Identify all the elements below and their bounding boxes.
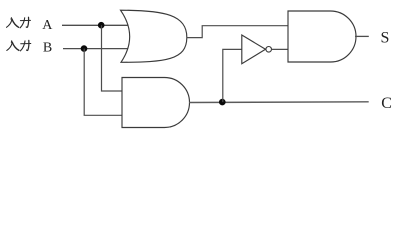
wire inverter output to AND gate U4 (272, 48, 289, 50)
wire OR output to AND gate U4 (stepped) (187, 26, 288, 38)
wire U2 output to C (189, 101, 369, 104)
junction node on wire A (98, 22, 105, 29)
AND gate U4 (top right) (288, 11, 356, 62)
junction node on wire B (81, 45, 88, 52)
wire A branch down to AND gate U2 top input (102, 25, 123, 91)
wire B (input B horizontal) (63, 48, 129, 50)
OR gate U1 (121, 10, 187, 62)
NOT gate U3 bubble (266, 47, 272, 53)
wire S output (355, 35, 369, 37)
wire B branch down to AND gate U2 bottom input (84, 49, 122, 116)
wire A (input A horizontal) (62, 24, 129, 26)
svg-text:A: A (42, 18, 53, 33)
junction node C branch (219, 99, 226, 106)
label 入力 B (input B) (7, 40, 31, 51)
AND gate U2 (bottom) (122, 78, 190, 128)
svg-text:C: C (381, 95, 392, 112)
svg-text:S: S (381, 30, 390, 47)
svg-text:B: B (43, 41, 52, 56)
label 入力 A (input A) (7, 17, 31, 28)
wire junction up to inverter input (223, 49, 242, 102)
NOT gate U3 triangle (242, 35, 266, 64)
